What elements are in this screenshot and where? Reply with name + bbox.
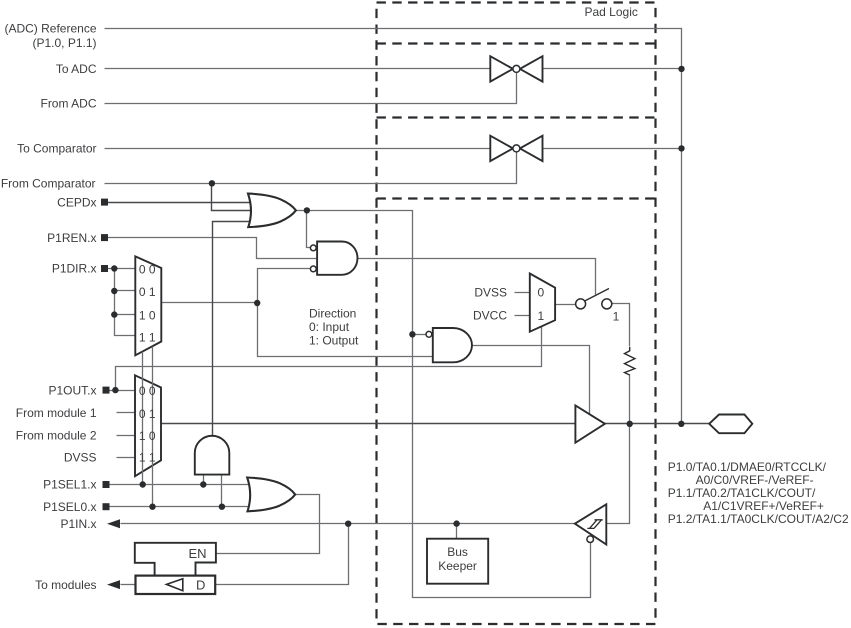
svg-text:From module 2: From module 2 <box>16 429 97 443</box>
svg-text:(ADC) Reference: (ADC) Reference <box>4 22 96 36</box>
svg-text:To modules: To modules <box>35 578 96 592</box>
svg-text:P1REN.x: P1REN.x <box>47 231 96 245</box>
svg-text:EN: EN <box>189 546 207 561</box>
svg-text:0 0: 0 0 <box>139 384 156 398</box>
svg-text:From module 1: From module 1 <box>16 406 97 420</box>
svg-text:1 1: 1 1 <box>139 451 156 465</box>
svg-text:0 1: 0 1 <box>139 285 156 299</box>
svg-text:Bus: Bus <box>447 545 468 559</box>
svg-text:To Comparator: To Comparator <box>17 142 96 156</box>
svg-text:Pad Logic: Pad Logic <box>585 5 638 19</box>
svg-text:CEPDx: CEPDx <box>57 195 96 209</box>
svg-text:DVSS: DVSS <box>64 450 97 464</box>
svg-text:1 0: 1 0 <box>139 429 156 443</box>
svg-text:P1.0/TA0.1/DMAE0/RTCCLK/: P1.0/TA0.1/DMAE0/RTCCLK/ <box>668 460 827 474</box>
svg-text:A0/C0/VREF-/VeREF-: A0/C0/VREF-/VeREF- <box>696 473 814 487</box>
svg-text:1: 1 <box>613 310 620 324</box>
svg-text:P1DIR.x: P1DIR.x <box>52 262 97 276</box>
svg-text:P1SEL0.x: P1SEL0.x <box>43 500 96 514</box>
svg-text:A1/C1VREF+/VeREF+: A1/C1VREF+/VeREF+ <box>703 499 824 513</box>
svg-text:1 0: 1 0 <box>139 308 156 322</box>
svg-text:(P1.0, P1.1): (P1.0, P1.1) <box>32 36 96 50</box>
svg-text:P1OUT.x: P1OUT.x <box>48 383 96 397</box>
svg-text:From Comparator: From Comparator <box>1 177 96 191</box>
svg-text:DVCC: DVCC <box>473 309 507 323</box>
svg-text:P1.2/TA1.1/TA0CLK/COUT/A2/C2: P1.2/TA1.1/TA0CLK/COUT/A2/C2 <box>668 512 849 526</box>
svg-text:To ADC: To ADC <box>56 62 97 76</box>
svg-text:P1SEL1.x: P1SEL1.x <box>43 478 96 492</box>
svg-text:0: 0 <box>538 285 545 299</box>
svg-text:DVSS: DVSS <box>474 285 507 299</box>
svg-text:Keeper: Keeper <box>438 559 477 573</box>
svg-text:1: 1 <box>538 309 545 323</box>
svg-text:0 0: 0 0 <box>139 262 156 276</box>
svg-text:Direction: Direction <box>309 306 356 320</box>
svg-text:D: D <box>196 578 205 593</box>
svg-text:1 1: 1 1 <box>139 330 156 344</box>
svg-text:1: Output: 1: Output <box>309 333 359 347</box>
svg-text:From ADC: From ADC <box>40 97 96 111</box>
svg-text:P1IN.x: P1IN.x <box>60 517 96 531</box>
svg-text:0: Input: 0: Input <box>309 320 350 334</box>
svg-text:0 1: 0 1 <box>139 407 156 421</box>
svg-text:P1.1/TA0.2/TA1CLK/COUT/: P1.1/TA0.2/TA1CLK/COUT/ <box>668 486 816 500</box>
